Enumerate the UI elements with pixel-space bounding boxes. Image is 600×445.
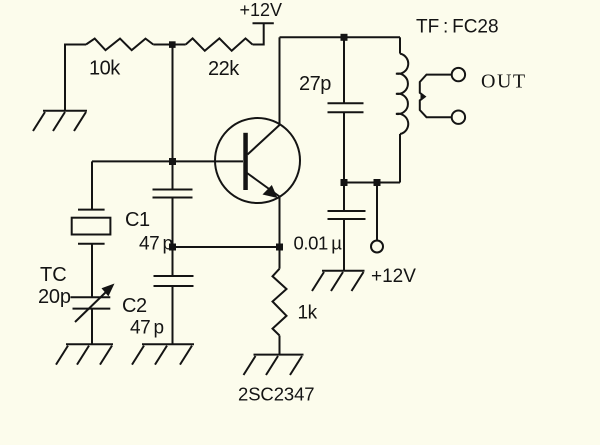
node tank top [341,34,348,41]
ground (0.01u) [312,271,365,291]
capacitor 27p [328,103,364,112]
wire tank top to 27p [343,37,345,103]
ground (C2) [132,344,194,364]
node B (base node) [169,158,176,165]
svg-text:1k: 1k [298,303,318,324]
svg-text:+12V: +12V [371,266,416,287]
capacitor 0.01u [328,183,366,271]
node C (C1/C2/emitter feedback) [169,244,176,251]
capacitor TC 20p (trimmer) [71,284,115,323]
svg-text:20p: 20p [38,286,71,308]
ground (10k bias) [33,111,87,131]
wire 1k to ground [279,336,281,355]
node D (emitter junction) [276,244,283,251]
capacitor C2 47p [154,276,194,286]
wire collector up [279,37,281,125]
svg-text:C2: C2 [122,295,147,317]
wire ground to 10k [65,45,86,111]
crystal X1 [72,210,111,244]
capacitor C1 47p [153,190,193,198]
svg-text:C1: C1 [125,209,150,231]
terminal OUT top [452,68,465,81]
wire 27p to tank bottom [343,112,345,182]
wire emitter down [279,197,281,269]
svg-text:2SC2347: 2SC2347 [238,384,314,405]
wire base node to transistor base and crystal [92,160,243,162]
ground (crystal branch) [56,344,113,364]
transformer T1 primary winding [396,37,408,182]
terminal +12V (circle) [371,241,383,253]
svg-text:TC: TC [40,264,67,286]
svg-text:47 p: 47 p [139,234,173,255]
wire node A to 22k [173,44,186,46]
ground (1k) [244,355,304,375]
transformer T1 secondary winding [420,75,451,118]
svg-text:OUT: OUT [481,71,527,93]
svg-text:10k: 10k [89,58,121,80]
wire collector top run [280,36,401,38]
svg-text:+12V: +12V [240,0,283,20]
wire node C to emitter node D [173,246,280,248]
node A (junction 10k/22k/base) [169,41,176,48]
svg-text:0.01 µ: 0.01 µ [294,233,343,254]
svg-text:27p: 27p [299,73,331,95]
resistor 10k [86,39,153,51]
wire 22k to +12V [253,23,264,44]
wire crystal top [91,161,93,209]
svg-text:47 p: 47 p [130,318,164,339]
resistor 1k [273,269,287,336]
resistor 22k [186,38,253,50]
node tank bottom right [374,179,381,186]
node tank bottom left [341,179,348,186]
wire 10k to node A [153,44,172,46]
wire C1 to node C [172,198,174,248]
wire TC to ground [91,309,93,345]
transistor Q1 2SC2347 [215,118,300,203]
wire C2 to ground [172,286,174,344]
power +12V rail bar [253,22,274,24]
wire tank bottom run [344,182,400,184]
wire node B to C1 [172,161,174,189]
wire +12V branch [376,183,378,241]
wire crystal to TC [91,244,93,297]
svg-text:22k: 22k [208,58,240,80]
wire node A down to base node B [172,45,174,162]
terminal OUT bottom [452,111,465,124]
svg-text:TF : FC28: TF : FC28 [416,17,499,38]
wire node C to C2 [172,247,174,276]
